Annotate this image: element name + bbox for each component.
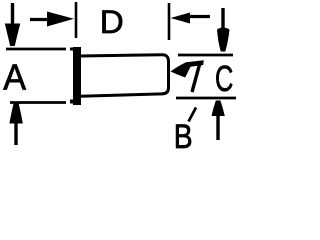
dimension D extension line right	[168, 3, 171, 40]
svg-text:C: C	[215, 58, 233, 99]
dimension D arrow right-pointing (left side)	[30, 12, 74, 27]
dimension C arrow down (top)	[217, 8, 230, 52]
leader line from B	[189, 108, 197, 122]
dimension C extension line bottom	[176, 97, 236, 100]
dimension A extension line top	[6, 48, 66, 51]
dimension A arrow down (top)	[5, 3, 20, 46]
leader arrowhead with bar pointing at body right edge	[171, 60, 204, 77]
svg-text:B: B	[174, 118, 193, 151]
dimension C arrow up (bottom)	[212, 101, 225, 141]
svg-text:D: D	[100, 4, 124, 40]
dimension A arrow up (bottom)	[9, 103, 22, 146]
dimension A extension line bottom	[10, 101, 66, 104]
component end cap (left flange bar)	[70, 47, 81, 105]
leader diagonal (down stroke of 7-shape)	[192, 64, 200, 93]
dimension D extension line left	[75, 2, 78, 38]
dimension D arrow left-pointing (right side)	[171, 13, 211, 24]
dimension C extension line top	[178, 54, 233, 57]
svg-text:A: A	[3, 57, 26, 98]
component body (package outline, rounded right end)	[80, 55, 169, 96]
